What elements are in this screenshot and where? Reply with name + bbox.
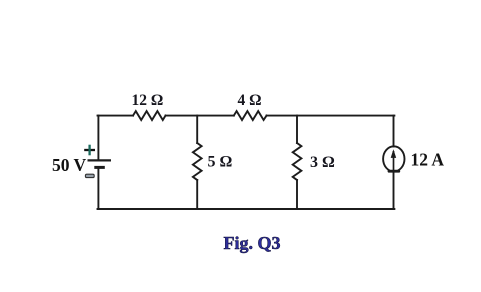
wire right vertical upper (to current source) [393, 116, 395, 147]
battery plus sign [84, 145, 95, 156]
resistor R2 4 ohm zigzag [234, 111, 267, 120]
wire left vertical upper (source top) [97, 116, 99, 160]
wire node A branch top (5 ohm) [196, 116, 198, 143]
resistor R1 12 ohm zigzag [133, 111, 166, 120]
voltage source V1 battery plates [88, 160, 112, 167]
wire top-right horizontal segment [267, 115, 395, 117]
current source arrow shaft [393, 151, 395, 173]
current source bottom thick dash [389, 170, 399, 173]
svg-text:Fig. Q3: Fig. Q3 [224, 233, 281, 253]
wire top-left horizontal segment [98, 115, 134, 117]
wire bottom horizontal [98, 208, 395, 210]
svg-text:3 Ω: 3 Ω [310, 154, 335, 171]
wire node B branch bottom (3 ohm) [296, 180, 298, 209]
wire top middle segment between R1 and R2 [166, 115, 234, 117]
current source I1 circle [383, 146, 404, 171]
resistor R3 5 ohm zigzag [193, 143, 202, 180]
resistor R4 3 ohm zigzag [293, 143, 302, 180]
wire node B branch top (3 ohm) [296, 116, 298, 143]
wire right vertical lower (from current source) [393, 172, 395, 210]
svg-text:12 A: 12 A [411, 149, 445, 169]
svg-text:4 Ω: 4 Ω [238, 92, 262, 109]
wire node A branch bottom (5 ohm) [196, 180, 198, 209]
battery minus sign [85, 174, 94, 177]
current source arrow head [391, 149, 397, 158]
svg-text:5 Ω: 5 Ω [208, 154, 233, 171]
svg-text:12 Ω: 12 Ω [132, 92, 164, 109]
svg-text:50 V: 50 V [52, 155, 87, 175]
wire left vertical lower (source bottom) [97, 168, 99, 209]
